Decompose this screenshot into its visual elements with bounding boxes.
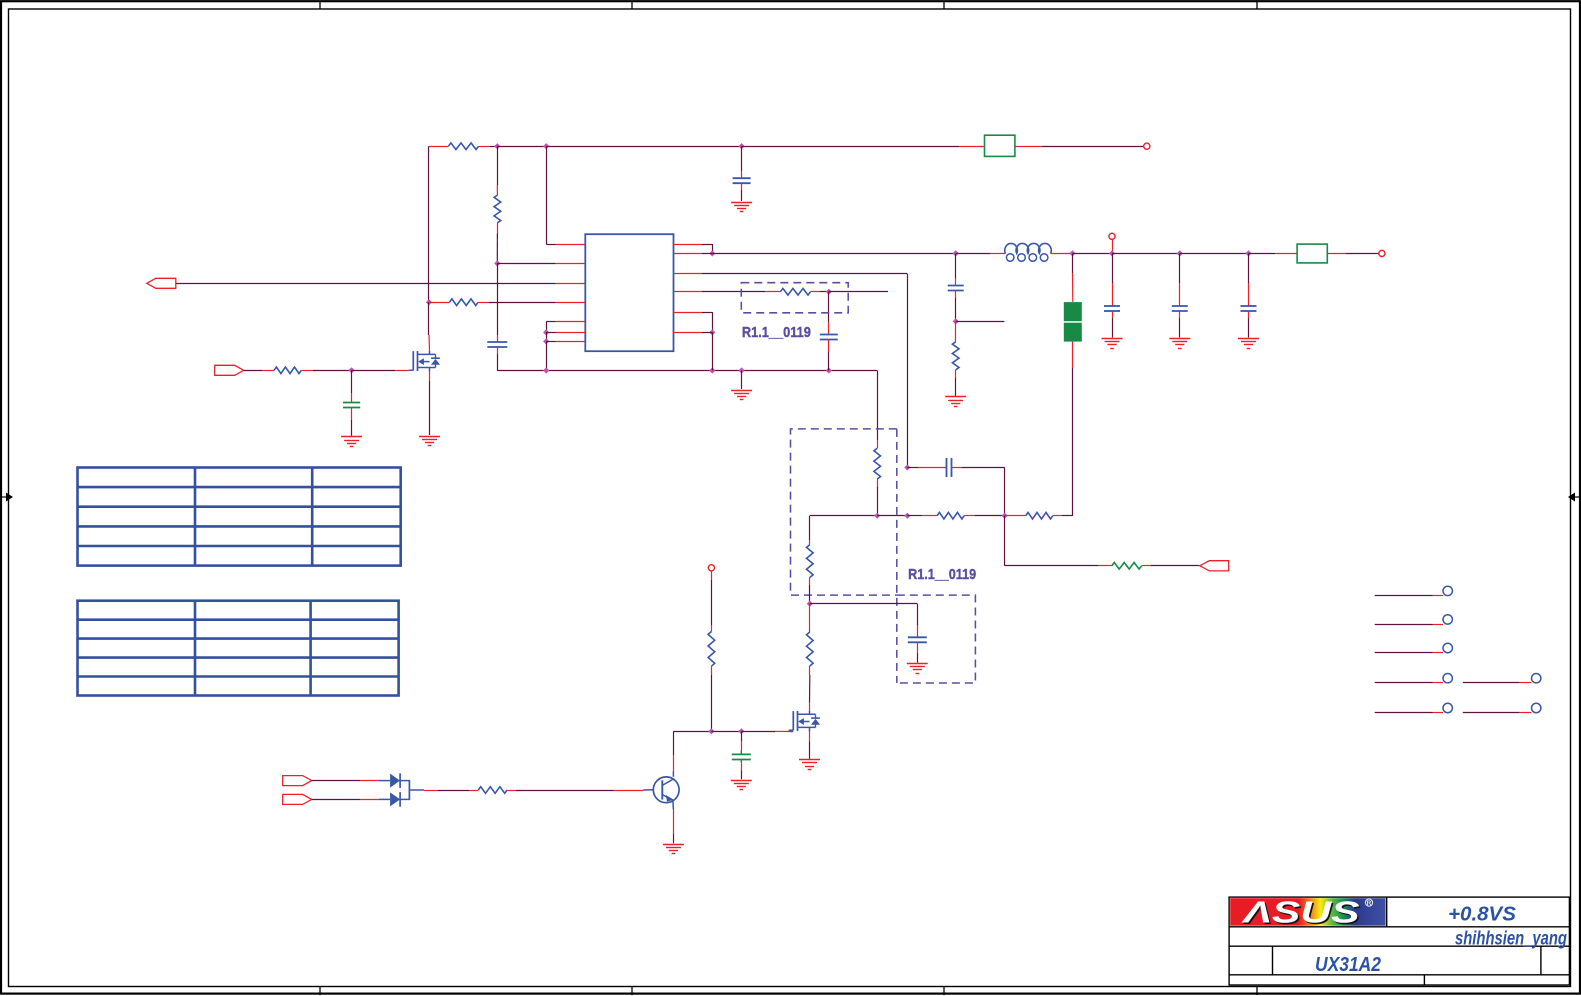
wire R9 to port [1142,565,1151,567]
resistor R11 [807,632,814,666]
dashed annotation box vertical shared edge [896,429,898,683]
ground below C8 [1238,338,1259,340]
wire top-rail node A to node B [497,146,546,148]
port PWR_EN (left arrow) [147,278,176,288]
resistor R2 [450,299,479,306]
node W junction [904,513,910,519]
resistor R5 [952,342,959,370]
wire U1 pin1-right [674,244,703,246]
wire R5 to ground [955,370,957,378]
svg-text:+0.8VS: +0.8VS [1448,903,1516,926]
wire C4 to bottom rail [828,340,830,353]
wire F2 to output terminal [1327,253,1345,255]
border tick top 4 [1256,1,1258,9]
wire C12 to ground [351,408,353,421]
no-connect stub N7 [1463,712,1520,714]
wire U1 pin6-left [556,332,586,334]
no-connect stub N2 [1375,624,1433,626]
wire R14 to node AB [301,370,313,372]
jumper J1 (green block) [1064,302,1082,321]
wire sense row [1005,565,1098,567]
wire collector row [673,731,711,733]
wire terminal to node Q [1112,239,1114,253]
border tick bottom 1 [319,987,321,996]
wire R2 to U1 pin4 [478,302,489,304]
svg-text:R1.1__0119: R1.1__0119 [742,324,811,341]
svg-text:ΛSUS: ΛSUS [1241,895,1361,929]
node Y junction [807,601,813,607]
resistor R8 [1026,512,1053,519]
wire VIN1 to D1 [312,780,360,782]
wire diodes to R13 [409,789,424,791]
wire node S to F2 [1249,253,1276,255]
port VR_ON (input tag) [215,365,244,375]
ground below Q2 [799,759,820,761]
title block frame [1229,897,1569,985]
ground below C10 [907,663,928,665]
wire Q3 collector riser [672,771,674,777]
capacitor C7 [1179,253,1181,283]
wire Q3 emitter to ground [672,800,675,809]
wire node X down [1004,516,1006,566]
wire U1 pin2-right [674,253,703,255]
border tick top 1 [319,1,321,9]
wire top-rail red stub left of R1 [429,146,448,148]
border arrow right [1574,496,1581,498]
resistor R4 (feedback) [780,288,810,295]
wire mid row 2 [877,515,907,517]
capacitor C11 (green) [741,731,743,741]
node T junction [953,318,959,324]
svg-text:R1.1__0119: R1.1__0119 [908,566,976,583]
wire R12 to node Z [711,666,713,675]
node L junction [709,250,715,256]
wire R8 to green jumper column [1053,515,1062,517]
jumper J2 (green block) [1064,323,1082,342]
resistor R10 [807,545,814,578]
wire Q2 source to ground [809,732,811,742]
wire U1 pin7-left [556,341,586,343]
wire node O to bottom rail [712,332,714,370]
wire node R to node S [1180,253,1249,255]
capacitor C2 [487,341,507,343]
ground below C6 [1102,338,1123,340]
wire U1 pin6-right [674,332,703,334]
resistor R1 [448,143,478,150]
no-connect stub N6 [1463,682,1520,684]
node Q junction [1109,250,1115,256]
wire C9 corner down [1004,468,1006,516]
wire node AA to Q2 gate [741,731,775,733]
table lower-left [78,601,399,696]
wire top-rail node B to node C [546,146,741,148]
wire SW rail [702,253,956,255]
wire node B down to U1 pin1 [546,146,548,244]
transistor Q2 (MOSFET) [789,729,794,731]
ground below R5 [945,396,966,398]
ground below C1 [731,202,752,204]
wire node Z to node AA [711,731,741,733]
wire mid row corner down to R10 [809,516,811,540]
wire node E down to C2 [497,263,499,335]
ground below C12 [341,436,362,438]
capacitor C6 [1112,253,1114,283]
wire node D to Q1 drain [428,302,430,335]
wire U1 pin5-right [674,312,703,314]
wire R6 to node U [877,479,879,487]
wire node Y down to R11 [809,604,811,625]
wire top-rail R1 to node A [479,146,490,148]
diode D1 [390,774,400,788]
wire node T stub right [956,321,1005,323]
capacitor C10 [908,636,927,638]
node Z junction [708,728,714,734]
port +0.8VS_SENSE (right tag) [1200,561,1229,571]
node H junction [543,367,549,373]
capacitor C5 [948,285,964,287]
wire C10 corner down [917,604,919,625]
wire node X to R8 [1005,515,1014,517]
node A junction [494,143,500,149]
node F junction [543,329,549,335]
wire VCC drop x=429 [428,146,430,302]
wire terminal down to R12 [711,571,713,580]
wire node G to bottom rail [546,341,548,370]
border tick bottom 3 [943,987,945,996]
wire top-rail node C to F1 [742,146,959,148]
op-amp U1 (regulator IC body) [585,234,673,351]
port VIN2 (input tag) [283,794,312,804]
svg-text:UX31A2: UX31A2 [1315,954,1381,976]
transistor Q1 (MOSFET) [409,369,414,371]
dashed annotation box R4 [741,283,848,313]
wire Q1 source to ground [429,372,431,381]
node D junction [426,299,432,305]
inductor L1 [1005,243,1051,253]
port VIN1 (input tag) [283,776,312,786]
wire C2 to bottom rail [497,347,499,354]
node AA junction [738,728,744,734]
dashed annotation box lower-left [791,429,897,595]
wire node A down to R3 [497,146,499,185]
svg-text:R: R [1367,900,1372,907]
no-connect stub N1 [1375,595,1433,597]
terminal circle above node Q [1109,233,1115,239]
wire node P down to J1 [1072,253,1074,273]
wire VIN2 to D2 [312,799,360,801]
node U junction [874,513,880,519]
wire R11 to Q2 drain [809,666,811,675]
border tick bottom 2 [631,987,633,996]
border arrow left [0,496,7,498]
wire C11 to ground [741,763,743,771]
resistor R14 [274,367,301,374]
ground below Q1 [419,436,440,438]
node B junction [543,143,549,149]
wire bottom rail [497,370,877,372]
wire node Q to node R [1112,253,1180,255]
svg-text:shihhsien_yang: shihhsien_yang [1455,929,1567,950]
terminal circle gate-drive [708,565,714,571]
node R junction [1177,250,1183,256]
resistor R6 [874,448,881,479]
resistor R13 [478,787,507,794]
node P junction [1069,250,1075,256]
wire C1 to ground [741,183,743,190]
node E junction [494,260,500,266]
table upper-left [78,468,401,566]
transistor Q3 (NPN BJT) [653,777,679,803]
capacitor C1 [741,146,743,171]
capacitor C9 [946,458,948,477]
wire node W to R7 [907,515,922,517]
wire node K rail corner down [877,371,879,441]
wire node M to L1 [956,253,990,255]
wire J2 down to feedback row [1072,342,1074,368]
terminal circle +0.8V sense [1144,143,1150,149]
wire L1 to node P [1051,253,1073,255]
node V junction [904,464,910,470]
no-connect stub N4 [1375,682,1433,684]
wire U1 pin3-right [674,273,703,275]
wire F1 to terminal [1015,146,1042,148]
fuse F1 [985,135,1015,156]
wire PWR_EN to U1 pin3 [176,283,556,285]
node S junction [1245,250,1251,256]
border tick bottom 4 [1256,987,1258,996]
resistor R12 [708,632,715,667]
resistor R3 [494,195,501,223]
wire C9 to corner [952,467,963,469]
wire node E to U1 pin2 [497,263,555,265]
wire R7 to node X [964,515,975,517]
wire U1 pin5-left [556,321,586,323]
wire node V to C9 [907,467,918,469]
node J junction [738,367,744,373]
wire R13 to Q3 base [507,790,516,792]
node N junction [826,289,832,295]
wire node AB to Q1 gate [352,370,395,372]
border tick top 2 [631,1,633,9]
wire node T to R5 [955,321,957,341]
node M junction [953,250,959,256]
node C junction [738,143,744,149]
no-connect stub N5 [1375,712,1433,714]
wire pin3 net down x=907.3 [907,274,909,468]
capacitor C12 (green) [351,370,353,393]
wire U1 pin4-right [674,291,703,293]
wire node N stub right [829,291,888,293]
node X junction [1001,513,1007,519]
node AB junction [348,367,354,373]
resistor R7 [937,512,964,519]
resistor R9 (green) [1112,563,1142,570]
ground at bottom rail [741,371,743,390]
ground below Q3 [663,844,684,846]
node G junction [543,338,549,344]
terminal circle +0.8VS out [1379,250,1385,256]
wire C10 to ground [917,642,919,653]
fuse F2 [1297,244,1327,263]
wire node N down to C4 [828,292,830,322]
node K junction [826,367,832,373]
wire R4 to node N [811,291,821,293]
border tick top 3 [943,1,945,9]
capacitor C8 [1248,253,1250,283]
wire C5 to node T [955,291,957,299]
wire VR_ON to R14 [244,370,262,372]
ground below C11 [731,780,752,782]
node I junction [709,367,715,373]
wire node M down to C5 [955,253,957,278]
wire node D to R2 [429,302,450,304]
no-connect stub N3 [1375,652,1433,654]
node O junction [709,329,715,335]
wire R10 to node Y [809,578,811,586]
wire node P to node Q [1073,253,1113,255]
diode D2 [390,792,400,806]
wire mid row [810,515,877,517]
wire diode common bar [400,780,409,782]
wire R3 to node E [497,223,499,234]
wire node F to node G [546,332,548,341]
dashed annotation box lower-right [897,595,976,683]
ground below C7 [1169,338,1190,340]
capacitor C4 [820,334,838,336]
wire node Y to C10 corner [810,603,918,605]
